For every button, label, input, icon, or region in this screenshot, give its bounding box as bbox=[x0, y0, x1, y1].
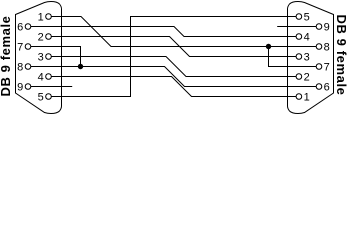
pin R2 bbox=[296, 72, 310, 84]
junction dot tying R7/R8 on wire to R8 bbox=[266, 44, 271, 49]
connector J2 shell (right DB9 female) bbox=[288, 2, 334, 114]
svg-text:2: 2 bbox=[38, 32, 44, 44]
wire net L2-R3 (RxD left from TxD right) bbox=[51, 37, 296, 57]
wire net L1-R7-R8 (DCD left to tied RTS/CTS right) bbox=[51, 17, 316, 67]
pin L5 bbox=[38, 92, 52, 104]
pin L4 bbox=[38, 72, 52, 84]
svg-text:8: 8 bbox=[17, 62, 23, 74]
junction dot tying L7/L8 on wire of L8 bbox=[78, 64, 83, 69]
wire net L3-R2 (TxD left to RxD right) bbox=[51, 57, 296, 77]
pin R4 bbox=[296, 32, 310, 44]
svg-text:4: 4 bbox=[304, 32, 310, 44]
svg-text:6: 6 bbox=[324, 82, 330, 94]
svg-text:1: 1 bbox=[304, 92, 310, 104]
svg-text:2: 2 bbox=[304, 72, 310, 84]
pin R3 bbox=[296, 52, 310, 64]
wire net L5-R5 (signal ground) bbox=[51, 17, 296, 97]
svg-text:5: 5 bbox=[38, 92, 44, 104]
wire stub R9 (RI right, unconnected) bbox=[277, 26, 316, 28]
pin R7 bbox=[316, 62, 330, 74]
svg-text:9: 9 bbox=[17, 82, 23, 94]
svg-text:4: 4 bbox=[38, 72, 44, 84]
svg-text:9: 9 bbox=[324, 22, 330, 34]
connector J1 shell (left DB9 female) bbox=[16, 2, 62, 114]
pin L8 bbox=[17, 62, 31, 74]
wire net L4-R1 (DTR left to DCD right) bbox=[51, 77, 296, 97]
svg-text:5: 5 bbox=[304, 12, 310, 24]
wire net L6-R4 (DSR left from DTR right) bbox=[31, 27, 296, 37]
pin R5 bbox=[296, 12, 310, 24]
pin L1 bbox=[38, 12, 52, 24]
svg-text:7: 7 bbox=[324, 62, 330, 74]
svg-text:7: 7 bbox=[17, 42, 23, 54]
svg-text:6: 6 bbox=[17, 22, 23, 34]
label J1 "DB 9 female" bbox=[0, 15, 13, 96]
wire stub L9 (RI left, unconnected) bbox=[31, 86, 72, 88]
pin R9 bbox=[316, 22, 330, 34]
pin R6 bbox=[316, 82, 330, 94]
pin L6 bbox=[17, 22, 31, 34]
pin L2 bbox=[38, 32, 52, 44]
svg-text:DB 9 female: DB 9 female bbox=[0, 15, 13, 96]
svg-text:DB 9 female: DB 9 female bbox=[334, 14, 349, 95]
svg-text:3: 3 bbox=[38, 52, 44, 64]
svg-text:1: 1 bbox=[38, 12, 44, 24]
pin L7 bbox=[17, 42, 31, 54]
wire net L7-L8-R6 (tied RTS/CTS left to DSR right) bbox=[31, 47, 316, 87]
pin L9 bbox=[17, 82, 31, 94]
pin R1 bbox=[296, 92, 310, 104]
label J2 "DB 9 female" bbox=[334, 14, 349, 95]
svg-text:3: 3 bbox=[304, 52, 310, 64]
svg-text:8: 8 bbox=[324, 42, 330, 54]
pin L3 bbox=[38, 52, 52, 64]
pin R8 bbox=[316, 42, 330, 54]
